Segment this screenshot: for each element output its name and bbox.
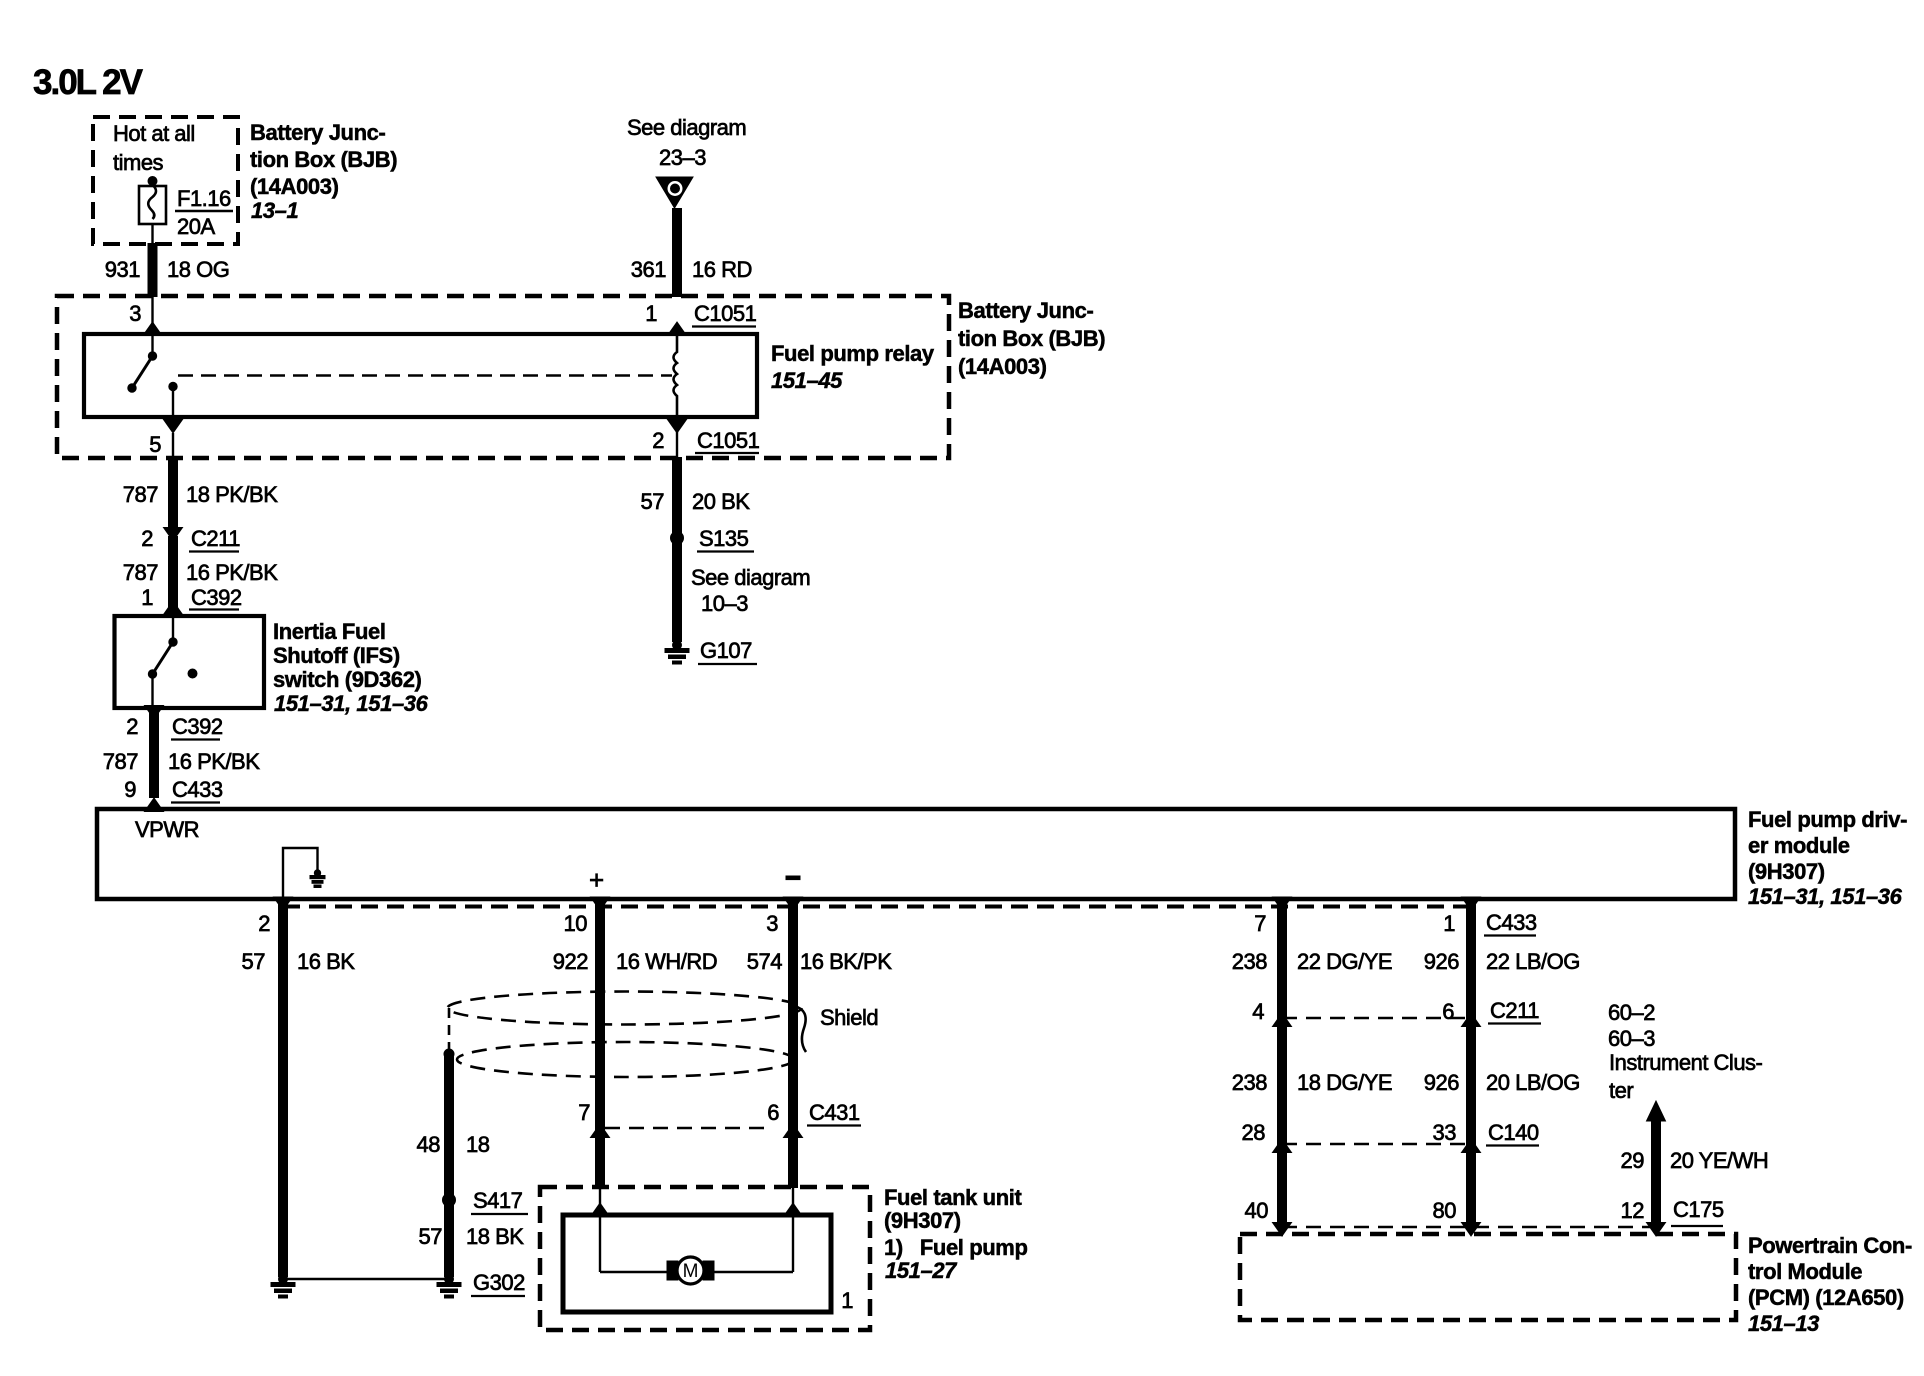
svg-text:Fuel tank unit: Fuel tank unit (884, 1185, 1022, 1210)
wire 787 18 PK/BK (123, 457, 278, 528)
battery junction box label (top) (250, 120, 397, 223)
svg-text:(PCM) (12A650): (PCM) (12A650) (1748, 1285, 1904, 1310)
module connector dashed line (283, 905, 1471, 909)
wire 57 20 BK (641, 457, 751, 534)
svg-text:9: 9 (124, 777, 136, 802)
svg-text:Fuel pump relay: Fuel pump relay (771, 341, 935, 366)
svg-text:5: 5 (149, 432, 161, 457)
svg-text:18 BK: 18 BK (466, 1224, 524, 1249)
svg-text:6: 6 (767, 1100, 779, 1125)
svg-text:16 BK/PK: 16 BK/PK (800, 949, 892, 974)
wire 57 16 BK (242, 899, 356, 1277)
minus terminal label (786, 876, 800, 880)
svg-text:7: 7 (1254, 911, 1266, 936)
connector C211 (141, 526, 240, 552)
svg-text:16 RD: 16 RD (692, 257, 752, 282)
svg-text:3: 3 (766, 911, 778, 936)
svg-text:1: 1 (141, 585, 153, 610)
svg-text:Shutoff (IFS): Shutoff (IFS) (273, 643, 400, 668)
svg-text:33: 33 (1433, 1120, 1457, 1145)
svg-text:Fuel pump driv-: Fuel pump driv- (1748, 807, 1907, 832)
svg-text:C175: C175 (1673, 1197, 1724, 1222)
svg-text:48: 48 (417, 1132, 441, 1157)
svg-text:151–27: 151–27 (885, 1258, 958, 1283)
svg-text:C433: C433 (172, 777, 223, 802)
pin 3 (module) (766, 897, 802, 936)
svg-text:Shield: Shield (820, 1005, 878, 1030)
svg-text:times: times (113, 150, 164, 175)
svg-text:20 BK: 20 BK (692, 489, 750, 514)
svg-text:C392: C392 (191, 585, 242, 610)
svg-text:20A: 20A (177, 214, 215, 239)
svg-text:18 OG: 18 OG (167, 257, 229, 282)
svg-text:tion Box (BJB): tion Box (BJB) (958, 326, 1105, 351)
svg-text:C433: C433 (1486, 910, 1537, 935)
connector C431 (578, 1100, 861, 1138)
shield drain dot (444, 1049, 454, 1059)
splice S135 (671, 526, 755, 552)
svg-text:28: 28 (1242, 1120, 1266, 1145)
svg-text:(9H307): (9H307) (884, 1208, 961, 1233)
fuel tank inner box (563, 1215, 831, 1312)
svg-text:C392: C392 (172, 714, 223, 739)
wire 787 16 PK/BK (123, 536, 278, 616)
svg-text:C211: C211 (1490, 998, 1539, 1023)
svg-text:S135: S135 (699, 526, 749, 551)
fuel tank unit box (dashed) (540, 1187, 870, 1330)
svg-text:23–3: 23–3 (659, 145, 706, 170)
pin 7 (1254, 897, 1291, 936)
svg-text:4: 4 (1252, 999, 1264, 1024)
wire 29 20 YE/WH with arrow to cluster (1621, 1101, 1769, 1236)
svg-text:16 WH/RD: 16 WH/RD (616, 949, 717, 974)
svg-text:C140: C140 (1488, 1120, 1539, 1145)
svg-text:2: 2 (258, 911, 270, 936)
svg-text:S417: S417 (473, 1188, 523, 1213)
svg-text:C1051: C1051 (697, 428, 760, 453)
svg-text:574: 574 (747, 949, 782, 974)
fuel pump relay box (84, 334, 757, 417)
svg-text:20 YE/WH: 20 YE/WH (1670, 1148, 1768, 1173)
svg-text:Battery Junc-: Battery Junc- (958, 298, 1093, 323)
svg-text:151–45: 151–45 (771, 368, 843, 393)
svg-text:C1051: C1051 (694, 301, 757, 326)
svg-text:40: 40 (1245, 1198, 1269, 1223)
svg-text:ter: ter (1609, 1078, 1633, 1103)
svg-text:16 PK/BK: 16 PK/BK (168, 749, 260, 774)
wire 361 16 RD (631, 208, 752, 297)
wire pin 3 into relay (151, 296, 153, 356)
pin 12 C175 (1621, 1197, 1724, 1226)
svg-text:6: 6 (1442, 999, 1454, 1024)
svg-text:1: 1 (841, 1288, 853, 1313)
connector C140 (1242, 1120, 1539, 1153)
relay coil (674, 334, 678, 417)
pump feed wires into tank (591, 1187, 803, 1272)
ground G302 (right) (437, 1275, 461, 1299)
IFS switch contacts (148, 616, 197, 708)
shield (448, 992, 807, 1078)
svg-text:361: 361 (631, 257, 666, 282)
fuel pump motor M (667, 1257, 714, 1284)
pin 5 (149, 420, 182, 459)
svg-text:60–2: 60–2 (1608, 1000, 1655, 1025)
svg-text:16 PK/BK: 16 PK/BK (186, 560, 278, 585)
instrument cluster reference (1608, 1000, 1763, 1103)
svg-text:Hot at all: Hot at all (113, 121, 195, 146)
svg-text:29: 29 (1621, 1148, 1645, 1173)
fuel pump driver module box (97, 809, 1735, 899)
splice S417 (443, 1188, 529, 1214)
svg-text:926: 926 (1424, 949, 1459, 974)
svg-text:Battery Junc-: Battery Junc- (250, 120, 385, 145)
svg-text:2: 2 (652, 428, 664, 453)
svg-text:151–31, 151–36: 151–31, 151–36 (274, 691, 429, 716)
pin 2 (258, 897, 292, 936)
svg-text:Inertia Fuel: Inertia Fuel (273, 619, 386, 644)
wire 238 18 DG/YE (1232, 1070, 1392, 1095)
svg-text:57: 57 (419, 1224, 443, 1249)
inertia fuel shutoff switch box (115, 616, 265, 708)
inertia fuel shutoff label (273, 619, 429, 716)
svg-text:See diagram: See diagram (691, 565, 810, 590)
pin 1 C1051 (645, 301, 756, 336)
wire 926 20 LB/OG (1424, 1070, 1580, 1095)
svg-text:787: 787 (123, 482, 158, 507)
svg-text:80: 80 (1433, 1198, 1457, 1223)
powertrain control module label (1748, 1233, 1912, 1336)
svg-text:er module: er module (1748, 833, 1850, 858)
svg-text:787: 787 (123, 560, 158, 585)
pin 40 (1245, 1198, 1292, 1236)
svg-text:(14A003): (14A003) (250, 174, 339, 199)
svg-text:F1.16: F1.16 (177, 186, 231, 211)
pin 2 C392 (126, 706, 223, 740)
wire 787 16 PK/BK (lower) (103, 712, 260, 798)
off-page connector symbol (656, 177, 693, 208)
svg-text:See diagram: See diagram (627, 115, 746, 140)
module internal ground (283, 848, 325, 897)
svg-text:926: 926 (1424, 1070, 1459, 1095)
svg-text:18 DG/YE: 18 DG/YE (1297, 1070, 1392, 1095)
svg-text:C211: C211 (191, 526, 240, 551)
pin 80 (1433, 1198, 1481, 1236)
svg-text:trol Module: trol Module (1748, 1259, 1862, 1284)
svg-text:2: 2 (141, 526, 153, 551)
wire 922 16 WH/RD (553, 899, 717, 1188)
fuse F1.16 20A (139, 177, 233, 245)
svg-text:1) Fuel pump: 1) Fuel pump (884, 1235, 1028, 1260)
svg-text:12: 12 (1621, 1198, 1645, 1223)
svg-text:18: 18 (466, 1132, 490, 1157)
fuel pump driver module label (1748, 807, 1907, 909)
svg-text:7: 7 (578, 1100, 590, 1125)
ground G107 (665, 638, 757, 664)
svg-text:151–13: 151–13 (1748, 1311, 1819, 1336)
pin 10 (564, 897, 610, 936)
fuel tank unit label (884, 1185, 1028, 1283)
svg-text:922: 922 (553, 949, 588, 974)
svg-text:M: M (683, 1261, 699, 1282)
svg-text:18 PK/BK: 18 PK/BK (186, 482, 278, 507)
battery junction box (dashed) (57, 296, 949, 458)
svg-text:tion Box (BJB): tion Box (BJB) (250, 147, 397, 172)
svg-text:931: 931 (105, 257, 140, 282)
battery junction box label (right) (958, 298, 1105, 379)
wire 931 18 OG (105, 243, 230, 297)
pin 1 C392 (141, 585, 242, 615)
svg-text:Powertrain Con-: Powertrain Con- (1748, 1233, 1912, 1258)
G302 label (471, 1270, 525, 1296)
svg-text:switch (9D362): switch (9D362) (273, 667, 422, 692)
svg-text:2: 2 (126, 714, 138, 739)
svg-text:10–3: 10–3 (701, 591, 748, 616)
hot at all times box (93, 117, 238, 244)
svg-text:238: 238 (1232, 1070, 1267, 1095)
svg-text:C431: C431 (809, 1100, 860, 1125)
svg-text:13–1: 13–1 (251, 198, 299, 223)
powertrain control module box (dashed) (1240, 1234, 1736, 1320)
svg-text:(14A003): (14A003) (958, 354, 1047, 379)
pin 9 C433 (124, 777, 223, 812)
relay linkage (dashed) (178, 374, 672, 377)
svg-text:Instrument Clus-: Instrument Clus- (1609, 1050, 1763, 1075)
pin 1 C433 (1443, 897, 1537, 936)
see diagram 23-3 (627, 115, 746, 170)
svg-text:238: 238 (1232, 949, 1267, 974)
pin 2 C1051 (652, 417, 759, 458)
wire 574 16 BK/PK (747, 899, 892, 1188)
PCM connector dashed line (1282, 1226, 1656, 1229)
svg-text:787: 787 (103, 749, 138, 774)
svg-text:22 DG/YE: 22 DG/YE (1297, 949, 1392, 974)
connector C211 (right) (1252, 998, 1541, 1027)
svg-text:1: 1 (1443, 911, 1455, 936)
wire S135 to G107 (672, 542, 682, 642)
svg-text:10: 10 (564, 911, 588, 936)
ground G302 (left) (271, 1275, 295, 1299)
svg-text:+: + (589, 865, 604, 895)
svg-text:151–31, 151–36: 151–31, 151–36 (1748, 884, 1903, 909)
svg-text:VPWR: VPWR (135, 817, 199, 842)
ground tie line (283, 1278, 449, 1280)
svg-text:3: 3 (129, 301, 141, 326)
svg-text:G302: G302 (473, 1270, 525, 1295)
svg-text:G107: G107 (700, 638, 752, 663)
svg-text:60–3: 60–3 (1608, 1026, 1655, 1051)
wire 926 22 LB/OG (1424, 899, 1580, 1223)
svg-text:16 BK: 16 BK (297, 949, 355, 974)
svg-text:1: 1 (645, 301, 657, 326)
wire 238 22 DG/YE (1232, 899, 1392, 1223)
svg-text:(9H307): (9H307) (1748, 859, 1825, 884)
svg-text:3.0L 2V: 3.0L 2V (33, 63, 144, 102)
relay switch (128, 352, 177, 420)
svg-text:22 LB/OG: 22 LB/OG (1486, 949, 1580, 974)
svg-text:20 LB/OG: 20 LB/OG (1486, 1070, 1580, 1095)
svg-text:57: 57 (242, 949, 266, 974)
svg-text:57: 57 (641, 489, 665, 514)
wire 48 18 (417, 1054, 490, 1277)
wire 57 18 BK (419, 1224, 525, 1249)
